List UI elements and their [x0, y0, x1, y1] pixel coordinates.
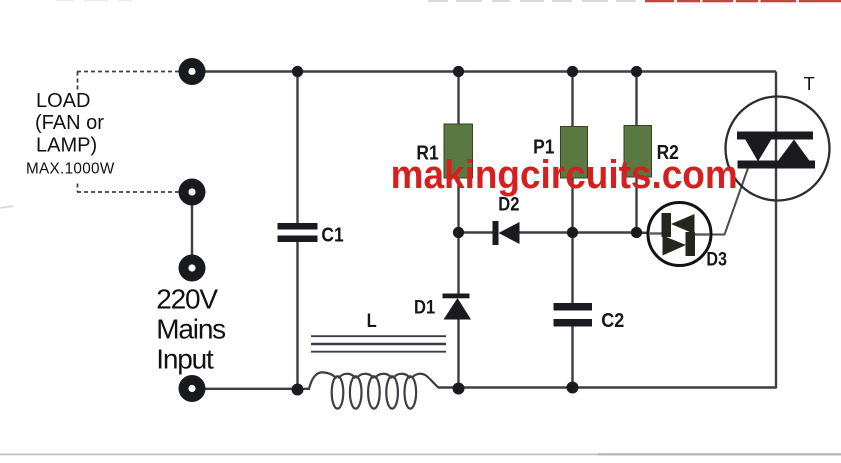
svg-text:makingcircuits.com: makingcircuits.com — [391, 153, 738, 198]
inductor L coil winding — [309, 372, 439, 408]
wire D3 to gate corner — [695, 234, 725, 236]
svg-text:C1: C1 — [321, 224, 344, 247]
wire R2 to mid node — [635, 175, 637, 233]
wire P1 branch upper — [571, 72, 573, 129]
junction top C1 — [292, 66, 303, 77]
wire C1 branch upper — [296, 72, 298, 224]
dashed load box left — [77, 72, 79, 193]
svg-text:LOAD: LOAD — [36, 90, 90, 112]
terminal 1 load top — [179, 58, 206, 85]
wire R1 to D2 node — [457, 176, 459, 233]
junction top P1 — [567, 66, 578, 77]
resistor R2 — [624, 126, 652, 178]
diac D3 — [648, 203, 711, 266]
wire P1 to mid node — [571, 176, 573, 233]
svg-text:C2: C2 — [601, 310, 624, 332]
terminal 4 mains neutral — [179, 375, 206, 402]
left edge remnant — [0, 205, 13, 209]
wire mid row R1 node to D2 — [459, 231, 494, 233]
dashed load box top — [77, 71, 180, 73]
wire R1 branch upper — [457, 72, 459, 127]
svg-text:L: L — [367, 310, 377, 332]
triac T — [726, 97, 830, 201]
bottom edge rule gray — [0, 454, 841, 456]
watermark remnant top edge gray — [56, 0, 636, 2]
svg-text:(FAN or: (FAN or — [35, 112, 104, 134]
potentiometer P1 — [561, 127, 588, 179]
wire mid row D2 to P1 node — [519, 231, 573, 233]
wire gate diagonal to triac — [725, 161, 751, 235]
junction top R1 — [453, 66, 464, 77]
svg-text:D1: D1 — [414, 296, 435, 318]
wire D2 node to D1 — [457, 233, 459, 296]
capacitor C2 — [554, 303, 593, 327]
wire mid node to C2 — [571, 233, 573, 305]
bottom edge rule right darker — [598, 453, 841, 455]
wire mid row P1 node to R2 node — [573, 231, 637, 233]
wire top rail — [192, 70, 776, 72]
terminal 2 load bottom — [179, 179, 206, 206]
wire C1 branch lower — [296, 241, 298, 389]
wire D1 to bottom rail — [457, 318, 459, 389]
junction bottom C2 — [567, 382, 579, 394]
capacitor C1 — [278, 223, 318, 242]
svg-text:Input: Input — [156, 344, 214, 375]
resistor R1 — [444, 124, 473, 178]
watermark remnant top edge red — [645, 0, 841, 2]
terminal 3 mains live — [179, 255, 206, 282]
svg-text:Mains: Mains — [156, 314, 225, 345]
svg-text:LAMP): LAMP) — [36, 134, 97, 156]
svg-text:T: T — [804, 73, 815, 94]
wire C2 to bottom rail — [571, 326, 573, 388]
wire R2 branch upper — [635, 72, 637, 128]
junction mid R1 — [453, 227, 464, 238]
junction mid R2 — [631, 227, 642, 238]
svg-text:MAX.1000W: MAX.1000W — [26, 161, 115, 178]
svg-text:220V: 220V — [156, 284, 218, 315]
diode D1 — [443, 294, 472, 320]
wire load link terminal2 to terminal3 — [191, 192, 193, 268]
svg-text:D3: D3 — [706, 248, 727, 270]
inductor L core lines — [311, 336, 446, 352]
junction bottom C1 — [292, 384, 304, 396]
junction mid P1 — [567, 227, 578, 238]
junction top R2 — [631, 66, 642, 77]
diode D2 — [493, 221, 520, 245]
wire R2 node to D3 — [637, 233, 664, 234]
wire bottom rail — [192, 388, 776, 389]
junction bottom D1 — [453, 383, 465, 395]
wire right rail down through triac — [775, 72, 777, 389]
label LOAD white backing — [26, 91, 126, 182]
dashed load box bottom — [77, 191, 180, 193]
